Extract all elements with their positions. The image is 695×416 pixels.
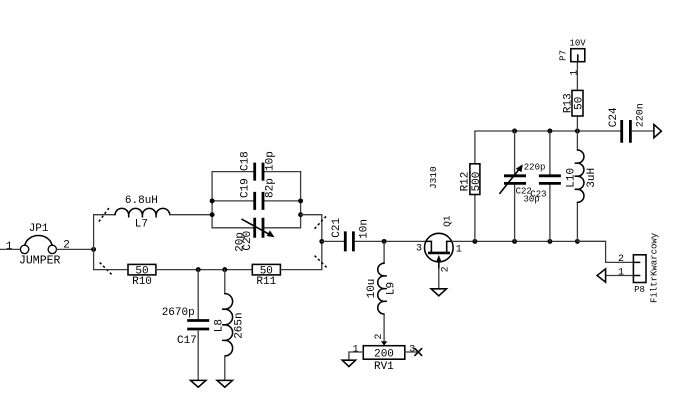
ground at Q1 <box>431 289 446 296</box>
ground at L8 <box>217 380 232 387</box>
wire top rail <box>475 130 620 132</box>
wire cap bank to right vertical <box>301 214 322 216</box>
svg-text:J310: J310 <box>428 166 439 189</box>
svg-text:500: 500 <box>471 172 483 192</box>
wire to L7 <box>94 214 115 216</box>
wire L8 top stub <box>224 270 226 294</box>
svg-text:10p: 10p <box>264 151 276 171</box>
svg-text:30p: 30p <box>523 194 539 204</box>
svg-text:C19: C19 <box>240 178 252 198</box>
wire Q1 gate to ground <box>438 269 440 289</box>
inductor L10 3uH <box>566 131 598 241</box>
wire bottom rail <box>452 240 606 242</box>
junction C23 bottom <box>547 239 552 244</box>
svg-text:1: 1 <box>456 245 462 256</box>
output arrow after C24 <box>654 125 662 138</box>
wire JP1 pin2 to node <box>57 248 94 250</box>
svg-text:Q1: Q1 <box>442 215 453 227</box>
wire rail to P8 pin2 <box>577 241 633 262</box>
junction C21 input <box>319 239 324 244</box>
wire P8 pin1 <box>606 275 634 277</box>
svg-text:L7: L7 <box>135 218 148 230</box>
svg-text:3: 3 <box>416 243 422 254</box>
capacitor C24 220n <box>608 103 647 143</box>
input arrow at P8 pin1 <box>597 269 606 282</box>
svg-text:10u: 10u <box>366 279 378 299</box>
svg-text:L8: L8 <box>213 319 225 332</box>
wire right vertical branch <box>321 215 323 270</box>
resistor R13 50 <box>563 62 586 131</box>
junction C22 top <box>512 129 517 134</box>
svg-text:220p: 220p <box>524 163 546 173</box>
svg-text:1: 1 <box>618 267 624 278</box>
wire L9 to RV1 wiper <box>383 314 385 341</box>
junction L9 top <box>382 239 387 244</box>
svg-text:1: 1 <box>6 241 13 253</box>
svg-text:C18: C18 <box>240 151 252 171</box>
no-connect X at RV1 pin3 <box>415 349 422 356</box>
svg-text:82p: 82p <box>264 178 276 198</box>
svg-text:R10: R10 <box>132 276 152 288</box>
variable capacitor C22 220p <box>500 131 546 241</box>
wire C18 row <box>212 171 301 173</box>
wire cap bank left vertical <box>211 172 213 228</box>
svg-text:2670p: 2670p <box>162 307 195 319</box>
inductor L8 265n <box>213 294 245 356</box>
wire left vertical branch <box>93 215 95 270</box>
connector P8 FiltrKwarcowy <box>618 232 659 303</box>
svg-text:50: 50 <box>573 97 585 110</box>
wire L9 top stub <box>383 241 385 263</box>
junction C22 bottom <box>512 239 517 244</box>
svg-text:10n: 10n <box>359 219 371 239</box>
svg-text:3: 3 <box>409 345 415 356</box>
svg-text:FiltrKwarcowy: FiltrKwarcowy <box>649 232 659 303</box>
junction cap bank left C19 <box>210 198 215 203</box>
wire C19 row <box>212 200 301 202</box>
wire C21 to Q1 <box>355 240 426 242</box>
wire cap bank right vertical <box>300 172 302 228</box>
svg-text:1: 1 <box>570 70 581 76</box>
ground at C17 <box>191 380 206 387</box>
junction cap bank left main <box>210 212 215 217</box>
wire to C21 <box>322 240 344 242</box>
wire L8 to ground <box>224 356 226 380</box>
inductor L7 6.8uH <box>115 195 170 230</box>
wire input to JP1 pin1 <box>0 248 20 250</box>
svg-text:L10: L10 <box>566 168 578 188</box>
dashed cut mark top-left <box>99 208 109 221</box>
transistor Q1 J310 <box>416 166 462 272</box>
jumper JP1 <box>6 223 70 267</box>
svg-text:2: 2 <box>374 333 385 339</box>
wire R10 left <box>94 269 128 271</box>
capacitor C19 82p <box>240 178 277 210</box>
dashed cut mark bottom-right <box>315 256 328 269</box>
junction L8 top <box>222 267 227 272</box>
resistor R11 50 <box>252 264 280 288</box>
resistor R10 50 <box>128 264 156 288</box>
wire C17 top <box>197 270 199 320</box>
capacitor C17 2670p <box>162 307 210 347</box>
dashed cut mark top-right <box>315 215 328 229</box>
svg-text:6.8uH: 6.8uH <box>125 195 158 207</box>
svg-text:JUMPER: JUMPER <box>19 255 61 268</box>
dashed cut mark bottom-left <box>100 263 113 276</box>
svg-text:265n: 265n <box>234 312 246 338</box>
svg-text:P7: P7 <box>559 50 569 61</box>
wire RV1 pin3 <box>405 351 417 353</box>
svg-text:20p: 20p <box>235 232 247 252</box>
svg-text:2: 2 <box>618 254 624 265</box>
wire RV1 pin1 to ground <box>349 352 363 360</box>
junction L10 bottom <box>575 239 580 244</box>
capacitor C23 30p <box>523 131 560 241</box>
resistor R12 500 <box>459 131 483 241</box>
connector P7 10V <box>559 39 587 62</box>
wire R11 to right vertical <box>280 269 321 271</box>
svg-text:10V: 10V <box>569 39 586 49</box>
svg-text:C24: C24 <box>608 107 620 127</box>
junction R12 bottom <box>472 239 477 244</box>
potentiometer RV1 200 <box>353 333 416 373</box>
capacitor C21 10n <box>331 218 371 252</box>
capacitor C18 10p <box>240 151 277 180</box>
variable capacitor C20 20p <box>235 218 275 252</box>
junction R13 L10 node <box>575 129 580 134</box>
wire C17 to ground <box>197 330 199 380</box>
junction C23 top <box>547 129 552 134</box>
svg-text:RV1: RV1 <box>374 361 394 373</box>
svg-text:220n: 220n <box>636 103 647 127</box>
wire R10 to R11 <box>156 269 252 271</box>
svg-text:L9: L9 <box>386 282 398 295</box>
svg-text:R11: R11 <box>256 276 276 288</box>
svg-text:JP1: JP1 <box>29 223 49 235</box>
inductor L9 10u <box>366 263 397 314</box>
svg-text:2: 2 <box>441 266 452 272</box>
svg-text:200: 200 <box>374 348 394 360</box>
ground at RV1 <box>342 360 355 366</box>
svg-text:P8: P8 <box>634 285 645 295</box>
svg-text:R12: R12 <box>459 172 471 192</box>
svg-text:C17: C17 <box>177 335 197 347</box>
junction C17 top <box>196 267 201 272</box>
svg-text:1: 1 <box>353 345 359 356</box>
wire C20 row <box>212 227 301 229</box>
junction cap bank right main <box>298 212 303 217</box>
svg-text:3uH: 3uH <box>586 168 598 188</box>
wire L7 to cap bank left <box>170 214 212 216</box>
junction cap bank right C19 <box>298 198 303 203</box>
svg-text:C21: C21 <box>331 218 343 238</box>
node junction at JP1 output <box>91 247 96 252</box>
wire C24 to output arrow <box>632 130 654 132</box>
